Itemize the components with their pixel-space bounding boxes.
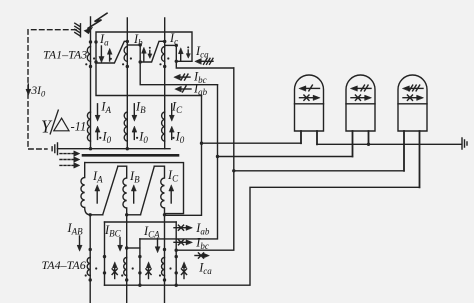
wire CT-A tap bbox=[95, 42, 97, 62]
wire delta link B-bottom to C-top (diagonal) bbox=[140, 41, 165, 62]
ground symbol right bbox=[462, 138, 467, 149]
arrow crossed right Iab row bbox=[174, 225, 192, 230]
arrow Ia return up bbox=[107, 49, 112, 62]
winding delta phase b bbox=[118, 166, 127, 215]
transformer core bar bbox=[83, 154, 178, 157]
wire LV conductor bc bbox=[126, 215, 128, 303]
wire Iab branch to relay KA1 bbox=[202, 142, 302, 144]
arrow I0 up (Y winding A) bbox=[95, 126, 100, 139]
arrow Ia down bbox=[99, 46, 104, 63]
wire link AB riser to CA riser bbox=[105, 221, 177, 223]
winding Y phase B bbox=[124, 112, 127, 141]
wire CT-C tap bbox=[175, 45, 177, 61]
arrow IC up (delta winding c) bbox=[169, 185, 174, 203]
flux dashed arrow 2 bbox=[60, 157, 80, 162]
arrow IAB down (LV lead) bbox=[77, 236, 82, 251]
arrow Ic dotted down small bbox=[186, 46, 190, 58]
arrow Ib dotted down small bbox=[148, 47, 152, 59]
wire Iab vertical riser bbox=[165, 96, 202, 216]
wire phase B (HV conductor) bbox=[126, 18, 128, 149]
arrow Ica left with 3 ticks bbox=[195, 58, 213, 64]
arrow crossed right Ica row bbox=[195, 253, 209, 258]
arrow Ic up bbox=[178, 48, 183, 61]
relay KA1 arrow Ica (one tick) bbox=[299, 85, 319, 91]
wire lower CT BC tap riser bbox=[139, 239, 141, 273]
wire delta top bus (A top to C bottom corner) bbox=[96, 32, 192, 61]
label Y/D-11 group bbox=[41, 110, 86, 137]
arrow Iab left with 1 tick bbox=[175, 86, 191, 92]
arrow IC down bbox=[169, 104, 174, 121]
relay KA1 arrow crossed (X) bbox=[300, 95, 320, 100]
CT TA3 secondary arcs on phase C bbox=[162, 47, 165, 62]
delta bottom segment b-c bbox=[127, 214, 141, 216]
relay KA3 arrow Ica2 (three ticks) bbox=[403, 85, 423, 91]
wire phase C (HV conductor) bbox=[164, 18, 166, 149]
wire CT-B top link bbox=[127, 44, 140, 46]
wire lower CT BC link bbox=[127, 247, 140, 249]
relay KA1 body bbox=[295, 75, 324, 144]
relay KA2 arrow Ibc (two ticks) bbox=[351, 85, 371, 91]
arrow I0 up (Y winding C) bbox=[169, 126, 174, 139]
wire LV conductor ca bbox=[164, 215, 166, 303]
arrow crossed up lower CT bc bbox=[146, 262, 151, 279]
wire lower CT AB tap riser bbox=[104, 222, 106, 285]
wire CA tap to star bus bbox=[175, 273, 177, 285]
lightning fault arrow bbox=[84, 13, 107, 34]
wire LV conductor ab bbox=[89, 215, 91, 303]
CT TA6 secondary arcs bbox=[162, 258, 165, 276]
CT TA1 secondary arcs on phase A bbox=[87, 47, 90, 62]
wire Iab output (CT-A to right) bbox=[96, 62, 202, 96]
arrow crossed right Ibc row bbox=[174, 240, 192, 245]
CT TA5 secondary arcs bbox=[124, 258, 127, 276]
svg-text:-11: -11 bbox=[71, 120, 87, 134]
relay KA3 body bbox=[398, 75, 427, 187]
wire CT-C top link bbox=[165, 44, 177, 46]
flux dashed arrow 1 bbox=[60, 151, 80, 156]
relay KA2 body bbox=[346, 75, 375, 157]
wire relay KA3 right leg return to star point bbox=[105, 187, 420, 285]
wire Ibc vertical riser bbox=[140, 85, 218, 239]
arrow 3I0 down on dashed line bbox=[26, 84, 31, 95]
relay KA2 arrow crossed (X) bbox=[351, 95, 371, 100]
ground (fault) top-left hatched bbox=[75, 23, 81, 37]
wire Ibc output (CT-B to right) bbox=[140, 62, 217, 85]
arrow Ib up bbox=[142, 47, 147, 61]
wire phase A (HV conductor) bbox=[90, 17, 92, 149]
wire CT-B tap bbox=[139, 45, 141, 62]
arrow IB up (delta winding b) bbox=[131, 185, 136, 203]
winding delta phase a (LV) bbox=[81, 163, 90, 215]
svg-text:TA1–TA3: TA1–TA3 bbox=[43, 48, 87, 62]
wire Ibc branch to relay KA2 bbox=[218, 156, 353, 158]
arrow I0 up (Y winding B) bbox=[132, 126, 137, 139]
wire neutral bbox=[58, 148, 171, 150]
dashed boundary box left bbox=[28, 30, 76, 149]
relay KA3 arrow crossed (X) bbox=[403, 95, 423, 100]
arrow ICA down bbox=[155, 238, 160, 252]
arrow IA up (delta winding a) bbox=[95, 185, 100, 203]
ground symbol neutral (left) bbox=[52, 143, 57, 155]
wire relay KA1 right leg to ground bus bbox=[317, 143, 461, 145]
wire Ica vertical riser bbox=[176, 68, 234, 250]
delta top bus and right edge bbox=[85, 163, 184, 214]
wire Ica output (CT-C to right) bbox=[176, 61, 234, 68]
winding delta phase c bbox=[154, 166, 164, 215]
arrow crossed up lower CT ca bbox=[181, 262, 186, 279]
wire Ica branch to relay KA3 bbox=[234, 170, 404, 172]
arrow Ibc left with 2 ticks bbox=[174, 74, 190, 80]
delta diagonal A-B bbox=[103, 166, 118, 215]
polarity dots bbox=[85, 57, 175, 276]
delta diagonal B-C bbox=[141, 166, 155, 215]
wire delta link A-bottom to B-top (diagonal) bbox=[96, 41, 127, 63]
CT TA4 secondary arcs bbox=[87, 258, 90, 276]
svg-text:TA4–TA6: TA4–TA6 bbox=[42, 258, 86, 272]
arrow IBC down bbox=[118, 238, 123, 252]
wire lower CT CA tap riser bbox=[175, 222, 177, 273]
winding Y phase C bbox=[162, 112, 165, 141]
flux dashed arrow 3 bbox=[60, 163, 80, 168]
CT TA2 secondary arcs on phase B bbox=[124, 47, 127, 62]
arrow crossed up lower CT ab bbox=[112, 262, 117, 279]
winding Y phase A (power transformer HV) bbox=[87, 112, 90, 141]
arrow IB down bbox=[132, 104, 137, 121]
wire BC tap to star bus bbox=[139, 273, 141, 285]
delta bottom segment a-b bbox=[90, 214, 103, 216]
arrow IA down (Y winding) bbox=[95, 104, 100, 121]
